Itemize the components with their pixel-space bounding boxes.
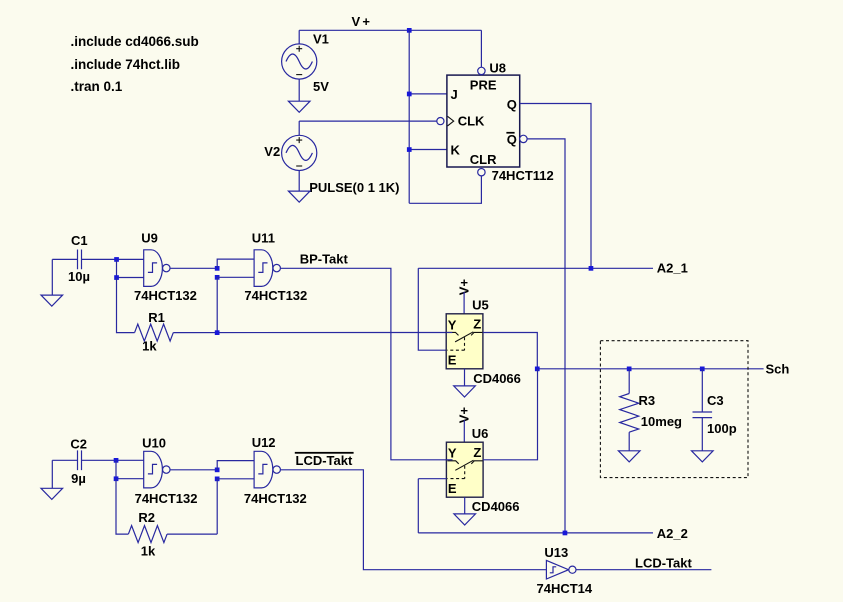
svg-text:U5: U5 [472, 298, 489, 313]
wire U6 Y inner stub [446, 459, 452, 461]
svg-text:74HCT112: 74HCT112 [492, 168, 554, 183]
node junction U11b [215, 275, 220, 280]
svg-text:C3: C3 [707, 393, 724, 408]
svg-text:Q: Q [507, 97, 517, 112]
svg-text:R1: R1 [148, 310, 165, 325]
ground under C3 [692, 451, 714, 462]
wire U6 ground stub [464, 497, 466, 514]
resistor R3 [620, 369, 639, 451]
resistor R1 [135, 324, 447, 341]
node junction R3 [627, 367, 632, 372]
svg-text:C1: C1 [71, 233, 88, 248]
wire Sch [537, 368, 763, 370]
node junction U12b [215, 477, 220, 482]
flip-flop U8 [437, 67, 527, 176]
node junction V+ [407, 28, 412, 33]
svg-text:U10: U10 [142, 436, 166, 451]
svg-text:U11: U11 [252, 230, 275, 245]
wire U13 out [576, 569, 711, 571]
wire CLK from V2 [299, 120, 437, 122]
svg-text:LCD-Takt: LCD-Takt [635, 555, 692, 570]
wire J [409, 93, 447, 95]
svg-text:CLR: CLR [470, 152, 497, 167]
wire Q out [520, 104, 591, 269]
wire PRE drop [480, 30, 482, 67]
node junction C3 [700, 367, 705, 372]
svg-text:.include cd4066.sub: .include cd4066.sub [71, 34, 199, 49]
svg-text:CLK: CLK [458, 113, 485, 128]
svg-text:J: J [451, 87, 458, 102]
nand gate U11 [254, 250, 280, 287]
svg-text:Sch: Sch [766, 361, 790, 376]
wire CLR return [409, 176, 481, 203]
wire U11 upper input [217, 259, 254, 268]
node junction C2/U10a [114, 458, 119, 463]
svg-text:A2_2: A2_2 [657, 526, 688, 541]
wire main bus [408, 30, 410, 203]
wire U5 ground stub [464, 369, 466, 386]
svg-text:U9: U9 [141, 230, 158, 245]
nand gate U10 [144, 451, 170, 488]
wire U12 lower input [217, 478, 254, 480]
svg-text:74HCT132: 74HCT132 [244, 288, 307, 303]
node junction K [407, 147, 412, 152]
wire U10 lower input [116, 460, 144, 478]
capacitor C2 [52, 450, 143, 470]
ground under C2 [41, 488, 63, 499]
node junction C1/U9a [114, 257, 119, 262]
svg-text:PRE: PRE [470, 77, 497, 92]
svg-text:A2_1: A2_1 [657, 261, 688, 276]
svg-text:V1: V1 [313, 32, 329, 47]
nand gate U12 [254, 451, 280, 488]
svg-text:C2: C2 [70, 436, 87, 451]
wire U6 supply [463, 420, 465, 442]
wire Qbar out [527, 139, 565, 533]
node junction U12a [215, 468, 220, 473]
svg-text:.include 74hct.lib: .include 74hct.lib [71, 57, 181, 72]
nand gate U9 [144, 250, 170, 287]
svg-text:PULSE(0 1 1K): PULSE(0 1 1K) [309, 180, 399, 195]
voltage source V1 [282, 30, 317, 101]
wire C1 ground drop [51, 259, 53, 295]
svg-text:5V: 5V [313, 79, 329, 94]
ground under R3 [618, 451, 640, 462]
svg-text:74HCT132: 74HCT132 [134, 288, 197, 303]
svg-text:74HCT132: 74HCT132 [135, 491, 198, 506]
wire U5 enable drop [418, 268, 446, 350]
svg-text:Y: Y [448, 317, 457, 332]
svg-text:Y: Y [448, 446, 457, 461]
wire C2 ground drop [51, 460, 53, 488]
svg-text:R3: R3 [639, 393, 656, 408]
wire A2_2 [418, 532, 653, 534]
svg-text:E: E [448, 353, 457, 368]
wire down to R1 [117, 278, 135, 333]
svg-text:R2: R2 [138, 510, 155, 525]
resistor R2 [128, 526, 217, 543]
svg-text:U8: U8 [489, 61, 506, 76]
analog switch U6 [446, 442, 483, 497]
svg-text:1k: 1k [142, 339, 157, 354]
svg-text:10µ: 10µ [68, 269, 90, 284]
ground under C1 [41, 295, 63, 306]
svg-text:74HCT14: 74HCT14 [537, 581, 593, 596]
wire U5 Y inner stub [446, 332, 452, 334]
svg-text:U12: U12 [252, 435, 276, 450]
svg-text:K: K [451, 142, 461, 157]
ground under V2 [288, 191, 310, 202]
wire U12 out to U13 [280, 470, 546, 570]
svg-text:U6: U6 [472, 426, 489, 441]
wire BP-Takt [280, 268, 446, 460]
node junction U11a [215, 266, 220, 271]
wire V+ rail [299, 29, 481, 31]
svg-text:Z: Z [473, 445, 481, 460]
wire U5 Z out [483, 333, 537, 369]
svg-text:Q: Q [507, 132, 517, 147]
ground under U6 [454, 514, 476, 525]
svg-text:74HCT132: 74HCT132 [244, 491, 307, 506]
voltage source V2 [282, 121, 317, 191]
wire A2_1 [418, 267, 653, 269]
svg-text:E: E [448, 481, 457, 496]
svg-text:CD4066: CD4066 [473, 371, 521, 386]
wire U9 lower input [117, 259, 144, 277]
wire U12 feedback drop [216, 479, 218, 534]
svg-text:100p: 100p [707, 421, 737, 436]
svg-text:.tran 0.1: .tran 0.1 [71, 79, 123, 94]
capacitor C3 [693, 369, 713, 451]
inverter U13 [546, 560, 576, 579]
node junction U9b [114, 275, 119, 280]
node junction A2_2/Qbar [563, 531, 568, 536]
analog switch U5 [446, 314, 483, 369]
ground under U5 [454, 386, 476, 397]
svg-text:Z: Z [473, 316, 481, 331]
wire U12 upper input [217, 461, 254, 470]
wire down to R2 [116, 479, 128, 534]
svg-text:U13: U13 [544, 545, 568, 560]
svg-text:10meg: 10meg [641, 414, 682, 429]
node junction J [407, 92, 412, 97]
node junction Sch/Z [535, 367, 540, 372]
wire U5 supply [463, 292, 465, 314]
svg-text:9µ: 9µ [71, 471, 86, 486]
dashed box R3 C3 [600, 341, 748, 478]
node junction U10b [114, 476, 119, 481]
wire K [409, 149, 447, 151]
svg-text:1k: 1k [141, 543, 156, 558]
ground under V1 [288, 101, 310, 112]
wire U11 lower input [217, 276, 254, 278]
wire U6 enable [418, 478, 446, 480]
wire U10 out [170, 469, 217, 471]
wire U6 Z out [483, 369, 537, 460]
svg-text:LCD-Takt: LCD-Takt [296, 453, 353, 468]
svg-text:V2: V2 [264, 144, 280, 159]
capacitor C1 [52, 250, 143, 270]
svg-text:BP-Takt: BP-Takt [300, 252, 349, 267]
wire U11 feedback drop [216, 277, 218, 332]
node junction R1/U5Y [215, 330, 220, 335]
wire U9 out [170, 267, 217, 269]
svg-text:CD4066: CD4066 [472, 499, 520, 514]
node junction A2_1/Q [589, 266, 594, 271]
wire U6 enable drop [417, 479, 419, 533]
